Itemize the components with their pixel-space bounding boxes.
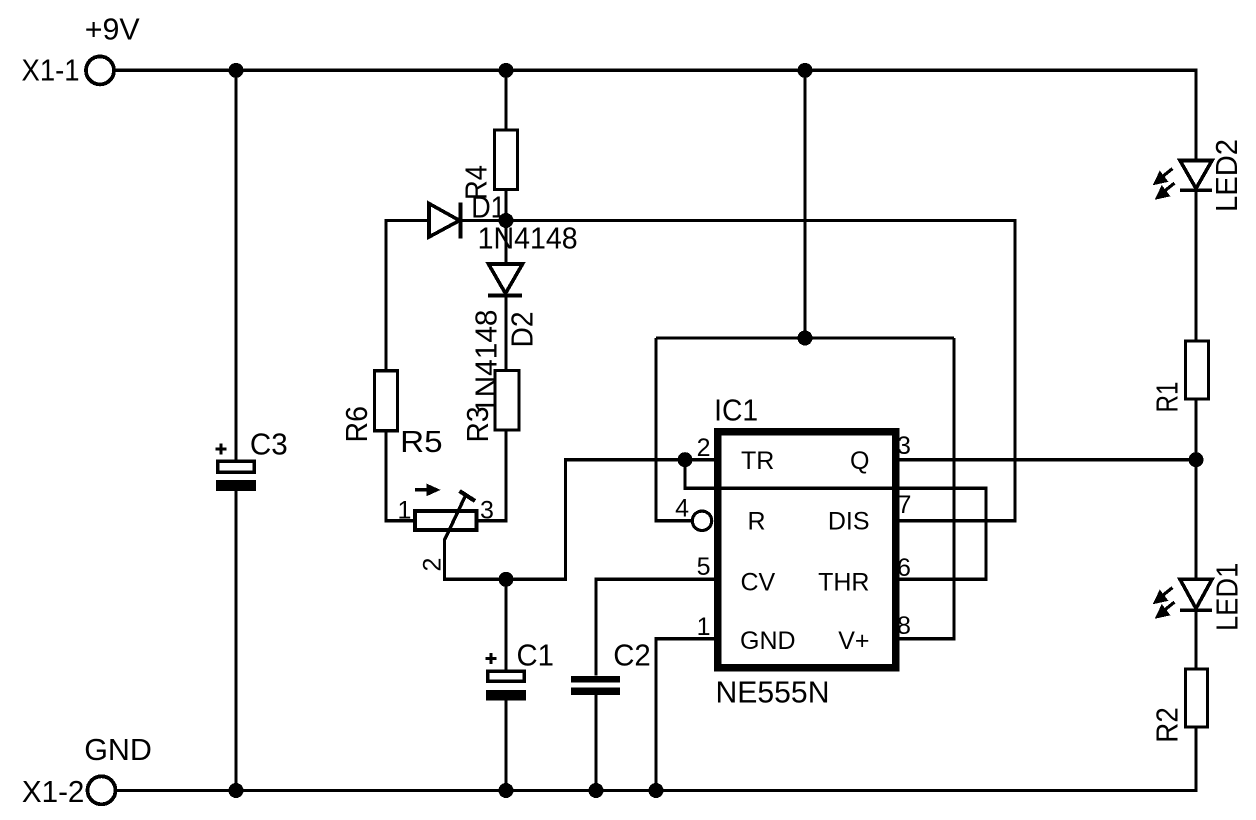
wire C1 bottom lead [504,700,507,791]
svg-text:8: 8 [897,612,911,640]
svg-text:7: 7 [898,491,912,519]
IC1 NE555 body [718,432,896,668]
potentiometer R5 wiper [445,491,476,540]
svg-text:R6: R6 [339,406,374,443]
wire R4 top lead [504,70,507,130]
svg-text:4: 4 [675,495,689,523]
LED LED1 [1180,579,1212,610]
svg-text:3: 3 [480,497,494,525]
svg-text:6: 6 [897,554,911,582]
resistor R2 [1186,669,1208,727]
svg-text:DIS: DIS [828,508,870,536]
svg-text:+9V: +9V [85,11,140,46]
wire IC supply drop [803,70,806,338]
wire to V+ pin 8 [900,338,954,639]
resistor R4 [495,130,518,190]
wire LED2 to R1 [1194,190,1197,341]
resistor R3 [495,371,519,431]
capacitor C2 [571,676,620,695]
svg-text:C2: C2 [613,637,651,672]
wire LED1 to R2 [1194,612,1197,670]
junction pot C1 node [499,572,514,587]
wire Q pin 3 to LED node [900,458,1196,461]
wire R4 bottom lead [504,190,507,221]
svg-text:R3: R3 [460,407,495,443]
wire R6 bottom to pot pin 1 [386,431,415,521]
svg-text:3: 3 [897,432,911,460]
diode D1 [429,203,461,239]
junction top rail / R4 [499,63,514,78]
svg-text:1N4148: 1N4148 [469,310,504,415]
resistor R6 [375,371,398,431]
svg-text:2: 2 [419,558,447,572]
wire top +9V rail [116,70,1197,160]
junction bottom rail / C3 [229,783,244,798]
svg-text:V+: V+ [838,627,869,655]
wire GND pin 1 to bottom rail [656,639,717,791]
capacitor C3 polarized [216,444,257,492]
LED LED2 [1180,161,1212,191]
svg-text:1N4148: 1N4148 [478,220,578,255]
svg-text:1: 1 [697,613,711,641]
junction bottom rail / C2 [589,783,604,798]
wire D2 anode lead [504,221,507,265]
wire C3 bottom lead [234,491,237,790]
wire Q node to LED1 [1194,460,1197,580]
wire C2 bottom lead [594,695,597,791]
wire to R pin 4 [656,338,692,521]
wire TR node to THR pin 6 [685,460,986,580]
svg-text:R5: R5 [400,424,443,459]
wire bottom GND rail [117,727,1196,791]
svg-text:X1-2: X1-2 [22,774,85,809]
wire C1 top lead [504,579,507,670]
wire R1 to Q node [1194,399,1197,460]
potentiometer R5 adjust arrow [415,484,441,497]
wire CV pin 5 to C2 top [596,579,717,675]
terminal X1-1 [86,56,114,84]
wire supply line above IC [656,336,954,339]
svg-text:R2: R2 [1150,707,1185,743]
svg-text:Q: Q [850,447,869,475]
svg-text:CV: CV [741,569,776,597]
diode D2 [488,264,523,296]
junction supply line above IC [798,331,813,346]
resistor R1 [1186,341,1209,399]
wire D1 anode to R6 top [386,221,429,371]
junction bottom rail / C1 [499,783,514,798]
terminal X1-2 [88,776,116,804]
svg-text:X1-1: X1-1 [22,53,80,88]
junction top rail / C3 [229,63,244,78]
capacitor C1 polarized [486,653,527,700]
svg-text:1: 1 [398,497,412,525]
svg-text:GND: GND [740,627,796,655]
LED1 emission arrows [1156,588,1175,617]
svg-text:C1: C1 [517,637,555,672]
svg-text:NE555N: NE555N [716,674,830,709]
svg-text:R1: R1 [1150,382,1185,413]
wire node to TR pin 2 [506,460,717,580]
svg-text:C3: C3 [250,427,288,462]
svg-text:THR: THR [818,569,869,597]
svg-text:TR: TR [741,447,774,475]
junction top rail / IC supply [798,63,813,78]
junction R4 D1 D2 DIS [499,213,514,228]
svg-text:GND: GND [84,732,152,767]
svg-text:LED2: LED2 [1209,139,1244,212]
svg-text:2: 2 [697,434,711,462]
svg-text:D2: D2 [505,312,540,348]
junction bottom rail / IC GND [649,783,664,798]
wire C3 branch top [234,70,237,459]
svg-text:LED1: LED1 [1210,563,1245,631]
wire pot wiper pin 2 to node [445,539,507,579]
wire R3 bottom to pot pin 3 [477,430,506,521]
junction TR node [678,452,693,467]
svg-text:R: R [748,508,766,536]
potentiometer R5 body [415,511,477,530]
LED2 emission arrows [1156,169,1175,198]
IC1 reset bubble pin 4 [692,511,711,530]
svg-text:5: 5 [697,553,711,581]
junction Q LED node [1189,452,1204,467]
svg-text:IC1: IC1 [714,393,758,428]
wire node to DIS pin 7 [506,221,1015,521]
wire D1 cathode to node [460,219,506,222]
wire D2 cathode to R3 top [504,296,507,371]
